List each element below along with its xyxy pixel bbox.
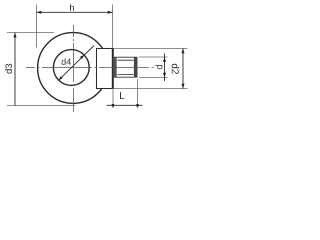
dimension d : extension lines: [139, 56, 168, 58]
outer circle (eye ring outer profile): [38, 33, 109, 104]
inner circle (eye hole): [53, 50, 89, 86]
shank left cap (thread start): [115, 57, 117, 77]
label L: [120, 92, 124, 99]
dimension d : dimension line with arrows: [164, 54, 166, 82]
label d (rotated): [155, 65, 162, 69]
dimension d3 : extension lines: [7, 32, 54, 34]
collar (boss) covering right part of ring: [97, 49, 114, 89]
shank right chamfered end: [134, 57, 137, 77]
dimension L : dimension line with dot terminators: [107, 104, 143, 106]
dimension h : extension lines: [36, 5, 38, 48]
label d2 (rotated): [172, 64, 179, 74]
dimension d2 : dimension line with arrows: [182, 49, 184, 89]
label h: [70, 4, 74, 11]
dimension d2 : extension lines: [113, 48, 188, 50]
horizontal centerline: [26, 67, 154, 69]
label d4: [62, 58, 71, 65]
shank (threaded stud) outline: [115, 57, 138, 77]
dimension h : dimension line with arrows: [37, 11, 113, 13]
dimension L : extension lines: [112, 90, 114, 109]
vertical centerline: [73, 25, 75, 112]
dimension d3 : dimension line with arrows: [14, 33, 16, 106]
dimension d4 : diagonal diameter line: [59, 46, 94, 81]
thread minor diameter lines: [117, 59, 133, 61]
collar bearing face (thick right edge): [112, 48, 114, 89]
label d3 (rotated): [5, 64, 12, 74]
